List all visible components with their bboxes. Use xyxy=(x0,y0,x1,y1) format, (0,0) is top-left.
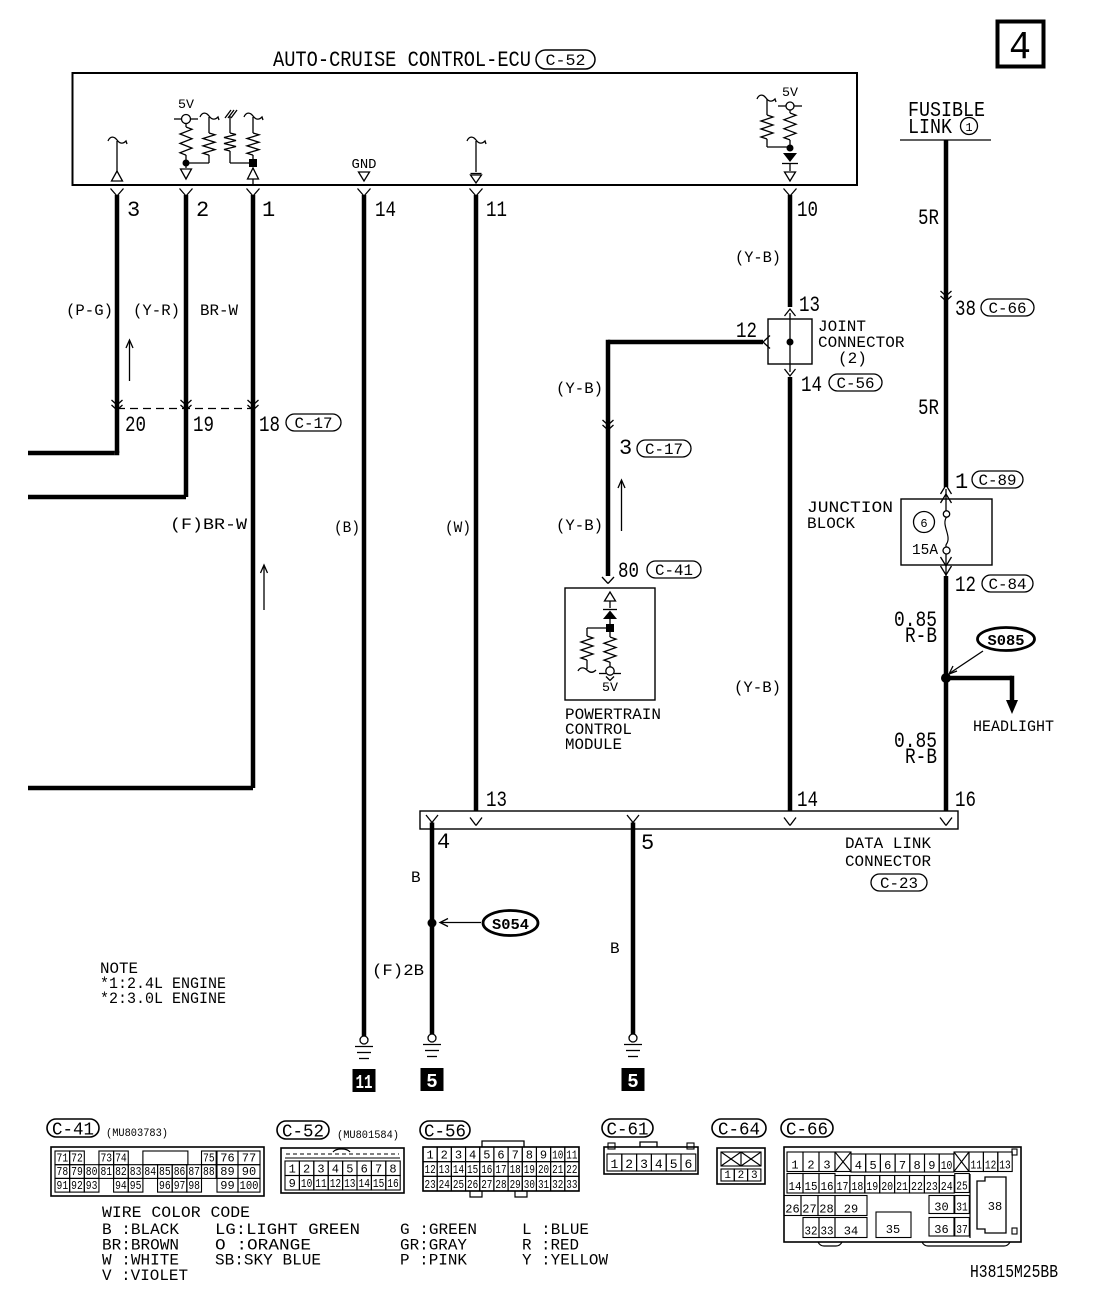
connector arrow 3 C-17 xyxy=(603,420,614,425)
svg-text:22: 22 xyxy=(911,1180,923,1194)
svg-text:37: 37 xyxy=(956,1223,968,1237)
svg-text:MODULE: MODULE xyxy=(565,736,622,754)
fuse symbol xyxy=(943,511,949,517)
svg-text:30: 30 xyxy=(934,1200,948,1214)
svg-text:29: 29 xyxy=(844,1202,858,1216)
svg-text:5: 5 xyxy=(483,1148,490,1162)
svg-text:33: 33 xyxy=(821,1224,834,1238)
ECU internal resistor R-c with slash marks (pin 1) xyxy=(225,110,231,118)
svg-text:14: 14 xyxy=(789,1180,802,1194)
svg-text:C-23: C-23 xyxy=(880,875,918,893)
svg-text:91: 91 xyxy=(57,1179,69,1193)
svg-text:27: 27 xyxy=(802,1202,816,1216)
pin 10 terminal xyxy=(784,189,791,197)
svg-text:2: 2 xyxy=(303,1162,310,1176)
svg-text:84: 84 xyxy=(144,1165,156,1179)
svg-text:89: 89 xyxy=(220,1165,234,1179)
wire joint connector pin 12 branch (Y-B) xyxy=(608,340,763,345)
connector label C-17 xyxy=(286,414,341,431)
svg-text:13: 13 xyxy=(439,1163,450,1177)
PCM internal resistor right xyxy=(609,632,611,637)
svg-text:7: 7 xyxy=(375,1162,382,1176)
svg-text:(Y-B): (Y-B) xyxy=(734,679,781,697)
splice S054 label xyxy=(483,911,538,936)
svg-text:14: 14 xyxy=(453,1163,464,1177)
connector table C-41 body xyxy=(51,1147,264,1196)
svg-text:10: 10 xyxy=(941,1159,953,1173)
pin 11 terminal xyxy=(470,189,477,197)
svg-text:DATA LINK: DATA LINK xyxy=(845,835,931,853)
fusible link bar xyxy=(900,139,991,141)
svg-text:6: 6 xyxy=(884,1159,891,1173)
svg-text:98: 98 xyxy=(188,1179,200,1193)
svg-text:14: 14 xyxy=(359,1177,370,1191)
svg-text:4: 4 xyxy=(437,830,450,855)
svg-text:10: 10 xyxy=(797,198,818,223)
svg-text:GND: GND xyxy=(352,157,377,173)
ECU internal arrow, pin 3 xyxy=(108,137,127,144)
svg-text:5: 5 xyxy=(670,1157,678,1172)
svg-text:(Y-B): (Y-B) xyxy=(735,249,781,267)
svg-text:19: 19 xyxy=(866,1180,878,1194)
svg-text:V :VIOLET: V :VIOLET xyxy=(102,1267,188,1285)
junction square pin 1 network xyxy=(249,159,257,167)
headlight arrowhead xyxy=(1006,700,1018,714)
svg-text:6: 6 xyxy=(684,1157,692,1172)
svg-text:(Y-B): (Y-B) xyxy=(556,380,603,398)
circled 1 xyxy=(961,118,978,135)
svg-text:35: 35 xyxy=(886,1223,900,1237)
pin 1 terminal xyxy=(247,189,254,197)
wire fusible link 5R upper xyxy=(944,140,949,487)
svg-text:11: 11 xyxy=(486,198,507,223)
svg-text:3: 3 xyxy=(640,1157,648,1172)
joint connector entry chevron pin 13 xyxy=(785,309,796,316)
svg-text:26: 26 xyxy=(467,1178,478,1192)
connector table C-64 header xyxy=(712,1119,766,1137)
svg-text:33: 33 xyxy=(566,1178,577,1192)
page number 4 box xyxy=(998,22,1044,67)
ECU internal resistor R-a (pin 2) xyxy=(185,124,187,128)
svg-text:(F)2B: (F)2B xyxy=(372,962,424,980)
junction dot joint connector xyxy=(787,339,794,346)
svg-text:93: 93 xyxy=(86,1179,98,1193)
svg-text:R-B: R-B xyxy=(905,624,937,649)
svg-text:3: 3 xyxy=(823,1158,830,1172)
svg-text:83: 83 xyxy=(130,1165,142,1179)
svg-text:2: 2 xyxy=(196,198,209,223)
svg-text:11: 11 xyxy=(315,1177,326,1191)
svg-text:C-84: C-84 xyxy=(989,576,1027,594)
PCM internal terminal triangle xyxy=(605,592,616,601)
svg-text:15A: 15A xyxy=(912,542,938,559)
svg-text:100: 100 xyxy=(240,1179,259,1193)
svg-text:9: 9 xyxy=(928,1159,935,1173)
PCM internal junction square xyxy=(606,624,614,632)
svg-text:71: 71 xyxy=(57,1152,69,1166)
svg-text:R-B: R-B xyxy=(905,745,937,770)
svg-text:5R: 5R xyxy=(918,396,939,421)
junction block box xyxy=(901,499,992,565)
svg-text:S054: S054 xyxy=(492,917,529,934)
svg-text:1: 1 xyxy=(610,1157,618,1172)
svg-text:6: 6 xyxy=(497,1148,504,1162)
svg-text:10: 10 xyxy=(301,1177,312,1191)
junction block entry chevrons xyxy=(941,485,952,494)
svg-text:20: 20 xyxy=(538,1163,549,1177)
svg-text:20: 20 xyxy=(881,1180,893,1194)
junction block exit chevrons xyxy=(945,554,947,576)
pin 2 terminal xyxy=(180,189,187,197)
svg-text:38: 38 xyxy=(988,1200,1002,1214)
svg-text:86: 86 xyxy=(174,1165,186,1179)
svg-text:36: 36 xyxy=(934,1223,948,1237)
svg-text:9: 9 xyxy=(289,1177,296,1191)
svg-text:16: 16 xyxy=(955,788,976,813)
svg-text:27: 27 xyxy=(481,1178,492,1192)
svg-text:C-56: C-56 xyxy=(424,1122,466,1142)
connector table C-41 header xyxy=(47,1119,99,1137)
svg-text:16: 16 xyxy=(821,1180,834,1194)
ground symbol right xyxy=(629,1034,637,1042)
data link pin 16 terminal xyxy=(940,818,946,826)
svg-text:(2): (2) xyxy=(838,350,867,368)
svg-text:15: 15 xyxy=(805,1180,818,1194)
PCM pin 80 terminal xyxy=(602,577,608,584)
svg-text:1: 1 xyxy=(791,1158,798,1172)
svg-text:26: 26 xyxy=(785,1202,799,1216)
ground symbol center xyxy=(428,1034,436,1042)
svg-text:3: 3 xyxy=(455,1148,462,1162)
svg-text:15: 15 xyxy=(373,1177,384,1191)
svg-text:5R: 5R xyxy=(918,206,939,231)
svg-text:12: 12 xyxy=(955,573,976,598)
svg-text:88: 88 xyxy=(203,1165,215,1179)
svg-text:C-17: C-17 xyxy=(295,415,333,433)
svg-text:(F)BR-W: (F)BR-W xyxy=(170,516,247,534)
svg-text:4: 4 xyxy=(1009,26,1031,71)
svg-text:31: 31 xyxy=(956,1200,968,1214)
ground symbol left xyxy=(360,1036,368,1044)
svg-text:16: 16 xyxy=(387,1177,398,1191)
svg-text:92: 92 xyxy=(71,1179,83,1193)
svg-text:12: 12 xyxy=(985,1158,996,1172)
svg-text:(W): (W) xyxy=(445,519,471,537)
svg-text:15: 15 xyxy=(467,1163,478,1177)
PCM internal resistor left xyxy=(587,627,610,629)
svg-text:13: 13 xyxy=(799,293,820,318)
wire pin 1 BR-W xyxy=(251,195,256,788)
svg-text:82: 82 xyxy=(115,1165,127,1179)
svg-text:24: 24 xyxy=(439,1178,450,1192)
wire data link pin 5 B xyxy=(631,823,636,1035)
svg-text:(Y-B): (Y-B) xyxy=(556,517,603,535)
ECU internal resistor R-d with hook (pin 1) xyxy=(244,113,263,120)
svg-text:7: 7 xyxy=(512,1148,519,1162)
svg-text:8: 8 xyxy=(389,1162,396,1176)
connector table C-66 cell 38 xyxy=(969,1174,971,1238)
svg-text:5: 5 xyxy=(346,1162,353,1176)
connector table C-56 header xyxy=(420,1121,470,1139)
connector table C-61 body xyxy=(604,1147,698,1174)
svg-text:3: 3 xyxy=(619,436,632,461)
svg-text:C-17: C-17 xyxy=(645,441,683,459)
connector C-66 corner notches xyxy=(1012,1149,1017,1155)
svg-text:1: 1 xyxy=(289,1162,296,1176)
svg-text:5: 5 xyxy=(627,1071,638,1093)
svg-text:11: 11 xyxy=(971,1158,982,1172)
svg-text:2: 2 xyxy=(625,1157,633,1172)
svg-text:SB:SKY BLUE: SB:SKY BLUE xyxy=(215,1252,321,1270)
svg-text:WIRE COLOR CODE: WIRE COLOR CODE xyxy=(102,1204,250,1222)
connector table C-61 header xyxy=(602,1119,653,1137)
ECU internal diode (pin 10) xyxy=(783,153,797,162)
svg-text:80: 80 xyxy=(86,1165,98,1179)
svg-text:21: 21 xyxy=(896,1180,908,1194)
junction dot S054 xyxy=(428,919,437,928)
wire 0.85 R-B upper xyxy=(944,576,949,811)
splice S085 label xyxy=(978,628,1035,651)
svg-text:1: 1 xyxy=(955,470,968,495)
svg-text:96: 96 xyxy=(159,1179,171,1193)
svg-text:8: 8 xyxy=(914,1159,921,1173)
pin 3 terminal xyxy=(111,189,118,197)
svg-text:97: 97 xyxy=(174,1179,186,1193)
ground id box 5 left xyxy=(421,1068,444,1091)
svg-text:18: 18 xyxy=(259,413,280,438)
svg-text:13: 13 xyxy=(999,1158,1010,1172)
svg-text:6: 6 xyxy=(920,517,927,531)
junction dot pin 10 network xyxy=(787,145,794,152)
connector table C-56 body xyxy=(482,1141,524,1147)
svg-text:CONNECTOR: CONNECTOR xyxy=(845,853,931,871)
svg-text:1: 1 xyxy=(426,1148,433,1162)
svg-text:H3815M25BB: H3815M25BB xyxy=(970,1263,1058,1283)
data link pin 13 terminal xyxy=(470,818,476,826)
svg-text:(MU801584): (MU801584) xyxy=(337,1130,399,1142)
svg-text:78: 78 xyxy=(57,1165,69,1179)
ECU internal arrow, pin 11 xyxy=(467,137,486,144)
svg-text:C-41: C-41 xyxy=(52,1120,94,1140)
svg-text:99: 99 xyxy=(220,1179,234,1193)
svg-text:BLOCK: BLOCK xyxy=(807,515,855,533)
svg-text:11: 11 xyxy=(566,1148,577,1162)
svg-text:1: 1 xyxy=(724,1170,731,1182)
wire pin 10 (Y-B) upper xyxy=(788,195,793,307)
connector C-17 dashed line xyxy=(117,408,253,410)
svg-text:13: 13 xyxy=(344,1177,355,1191)
svg-text:80: 80 xyxy=(618,559,639,584)
joint connector (2) box xyxy=(768,319,812,364)
svg-text:12: 12 xyxy=(425,1163,436,1177)
ECU internal pin 2 terminal triangle xyxy=(185,163,187,168)
svg-text:25: 25 xyxy=(453,1178,464,1192)
svg-text:C-41: C-41 xyxy=(655,562,693,580)
svg-text:32: 32 xyxy=(552,1178,563,1192)
svg-text:Y :YELLOW: Y :YELLOW xyxy=(522,1252,608,1270)
connector table C-66 body xyxy=(784,1147,1021,1242)
svg-text:34: 34 xyxy=(844,1224,858,1238)
svg-text:5V: 5V xyxy=(178,97,194,112)
svg-text:76: 76 xyxy=(220,1152,234,1166)
svg-text:2: 2 xyxy=(807,1158,814,1172)
ECU internal pin 10 terminal triangle xyxy=(785,172,796,181)
svg-text:*2:3.0L ENGINE: *2:3.0L ENGINE xyxy=(100,990,226,1008)
svg-text:17: 17 xyxy=(495,1163,506,1177)
svg-text:C-52: C-52 xyxy=(546,52,586,70)
connector arrow 38 C-66 xyxy=(941,291,952,296)
auto-cruise control ECU box C-52 xyxy=(73,73,858,185)
wire pin 2 (Y-R) xyxy=(184,195,189,497)
svg-text:81: 81 xyxy=(100,1165,112,1179)
connector arrow pin 19 xyxy=(181,400,192,405)
svg-text:18: 18 xyxy=(851,1180,863,1194)
svg-text:95: 95 xyxy=(130,1179,142,1193)
svg-text:87: 87 xyxy=(188,1165,200,1179)
data link pin 5 terminal xyxy=(627,815,633,823)
wire branch to headlight xyxy=(946,676,1012,681)
pin 12 entry chevron xyxy=(763,336,770,349)
svg-text:BR-W: BR-W xyxy=(200,302,238,320)
svg-text:5: 5 xyxy=(426,1071,437,1093)
connector C-66 bottom brackets xyxy=(818,1242,842,1246)
svg-text:P :PINK: P :PINK xyxy=(400,1252,467,1270)
svg-text:21: 21 xyxy=(552,1163,563,1177)
svg-text:C-52: C-52 xyxy=(282,1122,324,1142)
svg-text:24: 24 xyxy=(941,1180,953,1194)
svg-text:(MU803783): (MU803783) xyxy=(106,1128,168,1140)
svg-text:77: 77 xyxy=(242,1152,256,1166)
svg-text:(B): (B) xyxy=(334,519,360,537)
svg-text:S085: S085 xyxy=(988,633,1025,650)
svg-text:5V: 5V xyxy=(602,680,618,695)
svg-text:18: 18 xyxy=(510,1163,521,1177)
svg-text:23: 23 xyxy=(926,1180,938,1194)
svg-text:2: 2 xyxy=(738,1170,745,1182)
svg-text:3: 3 xyxy=(751,1170,758,1182)
svg-text:AUTO-CRUISE CONTROL-ECU: AUTO-CRUISE CONTROL-ECU xyxy=(273,48,531,73)
connector label C-52 xyxy=(536,50,595,69)
connector label C-56 at joint xyxy=(829,374,882,391)
svg-text:30: 30 xyxy=(524,1178,535,1192)
svg-text:90: 90 xyxy=(242,1165,256,1179)
flow arrow up near pin 3 wire xyxy=(129,341,131,381)
svg-text:9: 9 xyxy=(540,1148,547,1162)
svg-text:10: 10 xyxy=(552,1148,563,1162)
ground id box 11 xyxy=(353,1069,376,1092)
svg-text:29: 29 xyxy=(510,1178,521,1192)
connector arrow pin 18 xyxy=(248,400,259,405)
svg-text:31: 31 xyxy=(538,1178,549,1192)
svg-text:11: 11 xyxy=(356,1072,373,1094)
wire pin 10 (Y-B) lower to data link pin 14 xyxy=(788,377,793,811)
svg-text:C-66: C-66 xyxy=(989,300,1027,318)
svg-text:16: 16 xyxy=(481,1163,492,1177)
flow arrow up near PCM wire xyxy=(621,481,623,531)
svg-text:B: B xyxy=(610,940,620,958)
svg-text:4: 4 xyxy=(469,1148,476,1162)
ground id box 5 right xyxy=(622,1068,645,1091)
wire pin 11 (W) to data link pin 13 xyxy=(474,195,479,811)
svg-text:73: 73 xyxy=(100,1152,112,1166)
svg-text:17: 17 xyxy=(837,1180,849,1194)
connector table C-66 header xyxy=(781,1119,833,1137)
svg-text:14: 14 xyxy=(375,198,396,223)
ECU internal resistor R-e (pin 10) xyxy=(789,110,791,113)
svg-text:C-66: C-66 xyxy=(786,1120,828,1140)
svg-text:85: 85 xyxy=(159,1165,171,1179)
junction dot S085 xyxy=(941,673,951,683)
svg-text:C-61: C-61 xyxy=(607,1120,649,1140)
svg-text:28: 28 xyxy=(495,1178,506,1192)
arrow from S054 to junction xyxy=(441,922,481,924)
svg-text:3: 3 xyxy=(127,198,140,223)
svg-text:C-89: C-89 xyxy=(979,472,1017,490)
svg-text:3: 3 xyxy=(317,1162,324,1176)
PCM internal 5V source xyxy=(606,667,614,675)
wire data link pin 4 B xyxy=(430,823,435,1035)
ECU internal pin 1 terminal triangle xyxy=(248,168,259,179)
svg-text:32: 32 xyxy=(805,1224,818,1238)
svg-text:5: 5 xyxy=(869,1159,876,1173)
svg-text:4: 4 xyxy=(332,1162,339,1176)
svg-text:14: 14 xyxy=(797,788,818,813)
PCM internal diode xyxy=(603,609,617,611)
svg-text:HEADLIGHT: HEADLIGHT xyxy=(973,718,1054,736)
svg-text:5V: 5V xyxy=(782,85,798,100)
svg-text:LINK: LINK xyxy=(908,117,952,140)
wire pin 14 (B) to ground xyxy=(362,195,367,1036)
svg-text:12: 12 xyxy=(330,1177,341,1191)
svg-text:79: 79 xyxy=(71,1165,83,1179)
svg-text:94: 94 xyxy=(115,1179,127,1193)
data link connector box C-23 xyxy=(420,811,958,829)
svg-text:B: B xyxy=(411,869,421,887)
svg-text:23: 23 xyxy=(425,1178,436,1192)
svg-text:5: 5 xyxy=(641,831,654,856)
svg-text:8: 8 xyxy=(526,1148,533,1162)
pin 14 terminal xyxy=(358,189,365,197)
svg-text:25: 25 xyxy=(956,1179,968,1193)
arrow from S085 to junction xyxy=(950,651,983,673)
data link pin 4 terminal xyxy=(426,815,432,823)
svg-text:38: 38 xyxy=(955,297,976,322)
svg-text:C-56: C-56 xyxy=(837,375,875,393)
joint connector exit chevron pin 14 xyxy=(785,369,796,376)
connector table C-64 body xyxy=(717,1148,765,1184)
junction dot pin 2 network xyxy=(183,160,190,167)
svg-text:72: 72 xyxy=(71,1152,83,1166)
svg-text:6: 6 xyxy=(361,1162,368,1176)
svg-text:4: 4 xyxy=(655,1157,663,1172)
svg-text:(P-G): (P-G) xyxy=(66,302,113,320)
svg-text:22: 22 xyxy=(566,1163,577,1177)
connector table C-52 body xyxy=(281,1148,404,1193)
data link pin 14 terminal xyxy=(784,818,790,826)
ECU internal resistor R-f with hook (pin 10) xyxy=(757,95,776,102)
svg-text:2: 2 xyxy=(441,1148,448,1162)
flow arrow up near pin 1 wire xyxy=(263,566,265,610)
svg-text:19: 19 xyxy=(524,1163,535,1177)
svg-text:74: 74 xyxy=(115,1152,127,1166)
ECU internal resistor R-b with hook (pin 2) xyxy=(200,113,219,120)
svg-text:1: 1 xyxy=(262,198,275,223)
svg-text:(Y-R): (Y-R) xyxy=(133,302,180,320)
svg-text:75: 75 xyxy=(203,1152,215,1166)
svg-text:C-64: C-64 xyxy=(718,1120,760,1140)
connector table C-52 header xyxy=(277,1121,329,1139)
powertrain control module box xyxy=(565,588,655,700)
